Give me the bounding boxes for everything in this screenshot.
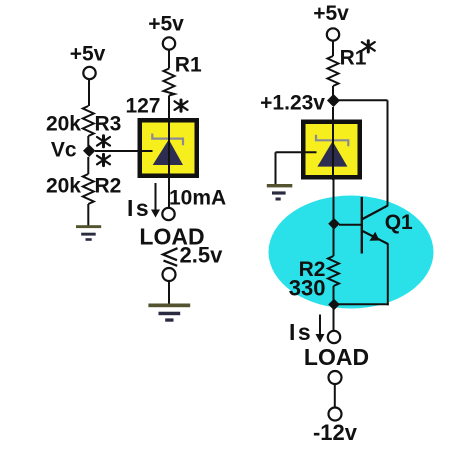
svg-text:+5v: +5v [313, 2, 349, 25]
svg-text:2.5v: 2.5v [180, 243, 224, 268]
svg-text:20k: 20k [46, 175, 81, 198]
svg-text:Vc: Vc [51, 139, 77, 162]
svg-text:+1.23v: +1.23v [260, 92, 325, 115]
svg-text:+5v: +5v [148, 13, 184, 36]
svg-text:20k: 20k [46, 113, 81, 136]
svg-text:Is: Is [289, 319, 313, 345]
svg-text:Q1: Q1 [385, 211, 413, 234]
svg-text:R1: R1 [175, 54, 202, 77]
svg-text:R3: R3 [95, 113, 122, 136]
svg-text:R2: R2 [95, 175, 122, 198]
svg-text:10mA: 10mA [169, 187, 226, 210]
svg-text:330: 330 [289, 276, 326, 301]
svg-text:127: 127 [125, 95, 160, 118]
svg-text:+5v: +5v [70, 43, 106, 66]
svg-text:LOAD: LOAD [304, 344, 369, 370]
svg-text:-12v: -12v [313, 420, 358, 445]
svg-text:Is: Is [127, 195, 151, 221]
